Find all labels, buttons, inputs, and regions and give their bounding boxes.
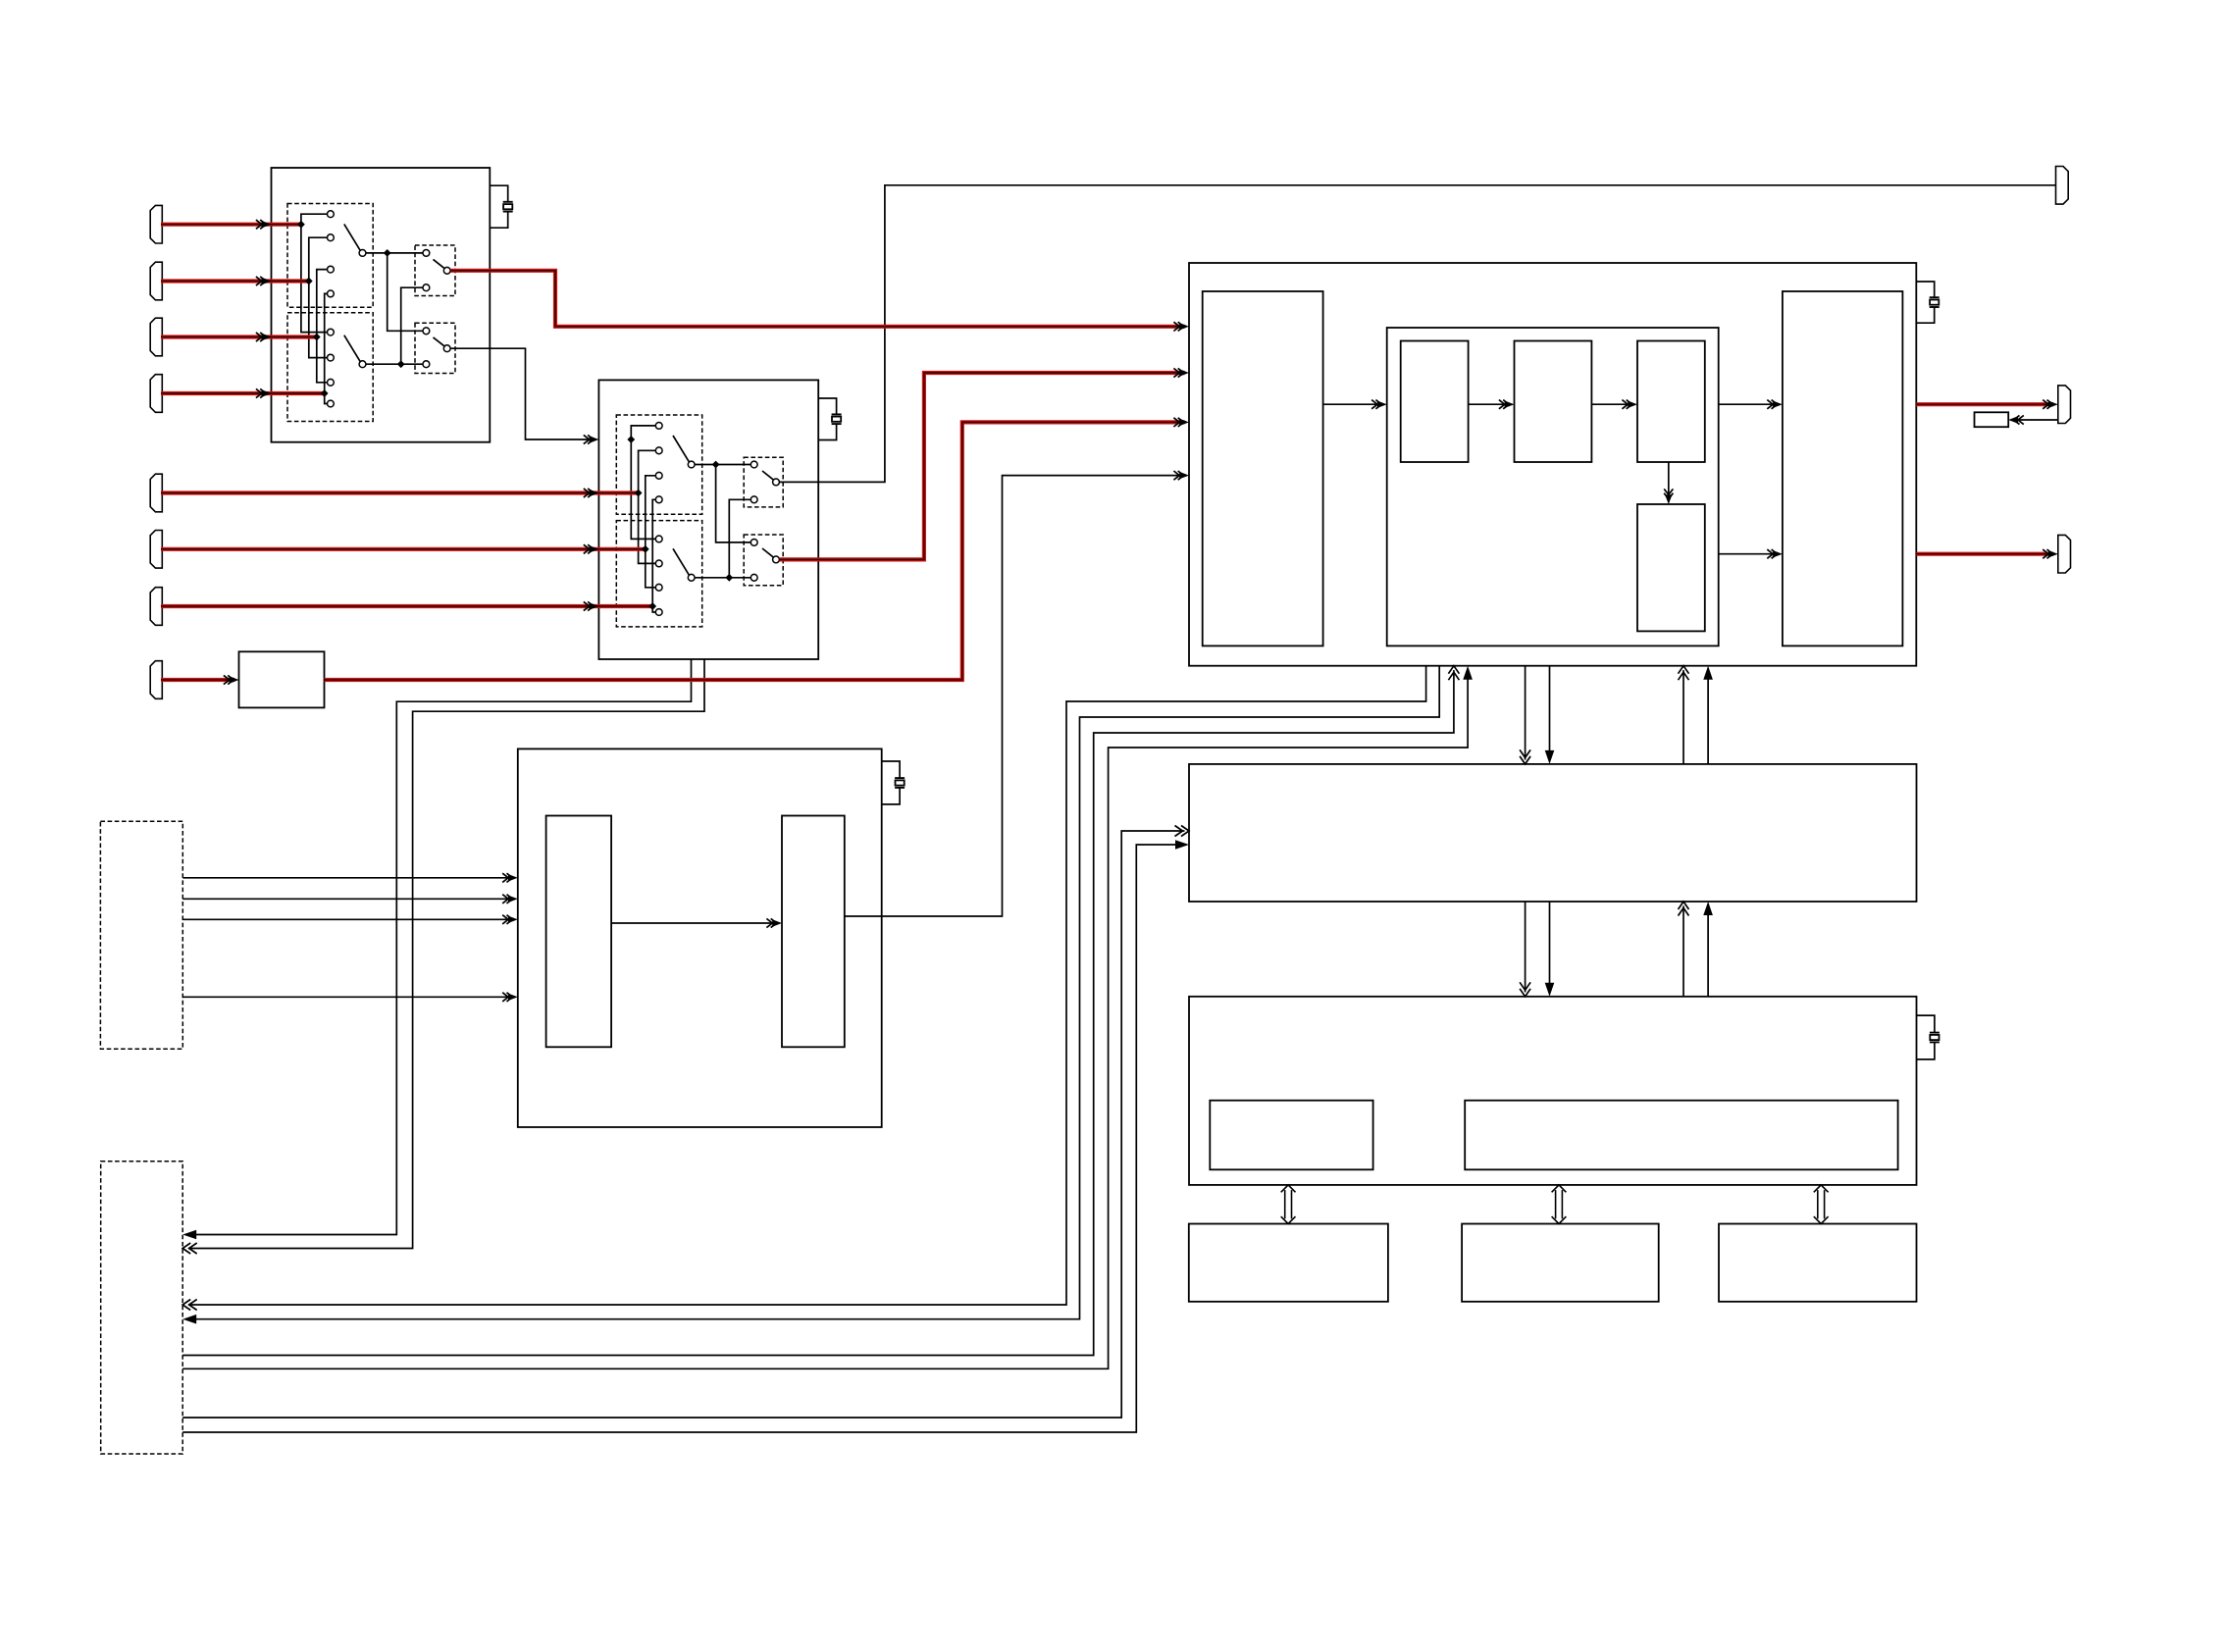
U3 stage A block: [1401, 341, 1469, 463]
U1 bank A contact 1: [328, 211, 335, 218]
connector P8: [150, 661, 162, 699]
U1 junction 1: [297, 221, 305, 229]
U2 junction A: [712, 461, 720, 469]
wire U5 to U3 up 2: [1703, 666, 1713, 764]
connector P3: [150, 318, 162, 356]
connector block CN1 (dashed): [100, 821, 182, 1049]
red wire P6 to U2: [161, 547, 646, 551]
U2 bank A contact 1: [655, 423, 662, 430]
arrow into CN2 row 2: [182, 1243, 197, 1254]
red wire P1 to U1: [161, 223, 301, 227]
U2 bus line 2: [639, 450, 656, 563]
U2 bank B contact 4: [655, 609, 662, 616]
U1 bank A contact 4: [328, 290, 335, 297]
U4 output block: [782, 816, 845, 1048]
arrow into U3 input 4: [1173, 471, 1189, 480]
U2 bank A contact 3: [655, 472, 662, 479]
arrow into U3 input 2: [1173, 368, 1189, 377]
U2 bank B contact 2: [655, 560, 662, 567]
wire U3 to U5 down 1: [1520, 666, 1530, 764]
wire CN1 to U4 line 2: [182, 895, 518, 903]
U3 input stage block: [1203, 291, 1323, 645]
U1 bus line 2: [309, 237, 328, 357]
controller U6 body: [1189, 997, 1917, 1185]
wire U5 to U6 down 2: [1545, 902, 1555, 997]
U2 junction 1: [627, 436, 635, 443]
wire CN1 to U4 line 1: [182, 873, 518, 882]
wire CN1 to U4 line 3: [182, 915, 518, 924]
switch module U1 body: [272, 168, 491, 442]
U2 junction B: [725, 574, 733, 582]
wire U2 to CN2 row 1: [187, 659, 692, 1235]
arrow into U1 input 4: [256, 388, 272, 397]
connector P4: [150, 375, 162, 413]
U3 stage C block: [1637, 341, 1705, 463]
U1 bus line 3: [317, 270, 328, 383]
U2 SW4 contacts: [750, 540, 757, 582]
red wire U1 SW1 to U3: [450, 271, 1184, 327]
wire U3 stage C to D: [1664, 462, 1673, 504]
wire U1 crossover 2: [401, 287, 423, 364]
U2 bank A contact 4: [655, 496, 662, 503]
wire CN1 to U4 line 4: [182, 993, 518, 1002]
arrow into U3 bottom 2: [1463, 666, 1473, 680]
connector P6: [150, 531, 162, 569]
connector J11: [2058, 386, 2071, 424]
arrow into U5 input 1: [1175, 826, 1190, 837]
arrow into CN2 row 4: [182, 1315, 196, 1324]
arrow into U1 input 3: [256, 333, 272, 341]
U1 bus line 4: [325, 293, 328, 403]
wire U1 SW2 to U2 input: [450, 348, 595, 439]
crystal X2 on U2: [818, 398, 841, 440]
wire U6 to U5 up 1: [1679, 902, 1689, 997]
U2 bank B switch arm: [673, 548, 695, 581]
wire U4 output to U3: [845, 476, 1185, 916]
wire U2 crossover 2: [729, 499, 750, 578]
connector P7: [150, 588, 162, 626]
wire CN2 row 6 to U3: [182, 670, 1468, 1368]
U2 junction 2: [635, 490, 643, 497]
wire U3 input stage to sub-block: [1323, 400, 1387, 409]
wire U2 crossover 1: [716, 465, 751, 542]
U6 logic block: [1465, 1101, 1897, 1170]
wire U3 stage B to C: [1591, 400, 1637, 409]
arrow into U2 input 3: [584, 544, 599, 553]
connector P2: [150, 262, 162, 300]
wire U3 sub-block to output stage: [1719, 400, 1783, 409]
red wire P2 to U1: [161, 279, 309, 283]
wire U4 input block to output block: [611, 918, 782, 927]
wire U5 to U3 up 1: [1679, 666, 1689, 764]
memory module U7 body: [1189, 1224, 1388, 1302]
U1 bank A contact 2: [328, 234, 335, 241]
red wire U2 SW4 to U3: [780, 373, 1185, 559]
U1 bank B switch arm: [344, 336, 366, 368]
arrow into CN2 row 1: [182, 1230, 196, 1240]
arrow into U2 input 2: [584, 489, 599, 497]
connector J10: [2056, 167, 2069, 205]
wire CN2 row 5 to U3: [182, 670, 1454, 1355]
U3 output stage block: [1783, 291, 1903, 645]
U3 stage B block: [1515, 341, 1592, 463]
wire J11 to termination R1: [2013, 419, 2058, 421]
U1 bank B contact 4: [328, 400, 335, 407]
U1 input bank A (dashed): [287, 204, 373, 308]
U2 SW3 contacts: [750, 461, 757, 503]
red wire P7 to U2: [161, 604, 652, 608]
U1 selector SW2 (dashed): [415, 323, 455, 373]
red wire FL1 to U3: [325, 422, 1185, 680]
filter FL1 body: [239, 651, 325, 707]
power module U4 body: [518, 749, 882, 1127]
U2 bus line 4: [652, 499, 655, 612]
connector P1: [150, 205, 162, 243]
U2 input bank B (dashed): [616, 521, 701, 627]
red wire P8 to FL1: [161, 678, 234, 682]
U2 bank B contact 1: [655, 536, 662, 542]
U1 bank A contact 3: [328, 266, 335, 273]
wire U3 to U5 down 2: [1545, 666, 1555, 764]
arrow into J12: [2043, 549, 2058, 558]
wire U5 to U6 down 1: [1520, 902, 1530, 997]
bus link U6 to U9: [1814, 1185, 1829, 1224]
arrow into U1 input 2: [256, 277, 272, 285]
wire U3 stage A to B: [1469, 400, 1515, 409]
U1 junction B: [397, 360, 405, 368]
U2 junction 4: [648, 602, 656, 610]
U2 bank A output wire: [695, 464, 750, 466]
arrow into R1: [2008, 415, 2024, 424]
arrow into FL1: [224, 675, 239, 684]
bus link U6 to U8: [1552, 1185, 1567, 1224]
U1 bank B output wire: [366, 363, 423, 365]
U2 bus line 1: [631, 426, 655, 540]
wire CN2 row 7 to U5: [182, 831, 1184, 1418]
U2 bank B contact 3: [655, 584, 662, 591]
U2 bank A switch arm: [673, 436, 695, 468]
U4 input block: [546, 816, 612, 1048]
wire U6 to U5 up 2: [1703, 902, 1713, 997]
U3 processing sub-block: [1387, 328, 1719, 645]
wire U3 sub-block to output stage 2: [1719, 549, 1783, 558]
U1 bank B contact 1: [328, 329, 335, 336]
wire U1 crossover 1: [388, 253, 423, 331]
red wire P5 to U2: [161, 490, 639, 494]
arrow into U3 input 1: [1173, 322, 1189, 331]
arrow into CN2 row 3: [182, 1300, 197, 1311]
red wire P3 to U1: [161, 335, 317, 338]
U1 bank B contact 2: [328, 354, 335, 361]
arrow into U3 input 3: [1173, 418, 1189, 427]
U2 bank A contact 2: [655, 447, 662, 454]
red wire U3 to J12: [1916, 552, 2053, 556]
U1 bank B contact 3: [328, 379, 335, 386]
U2 bank B output wire: [695, 577, 750, 579]
U1 SW2 switch arm: [434, 337, 451, 352]
wire U3 to CN2 row 4: [187, 666, 1440, 1319]
wire CN2 row 8 to U5: [182, 845, 1184, 1432]
U2 SW4 switch arm: [762, 548, 779, 563]
arrow into U3 bottom 1: [1448, 666, 1459, 681]
wire U3 to CN2 row 3: [188, 666, 1426, 1305]
U1 junction 2: [305, 278, 313, 285]
U1 junction 4: [321, 389, 329, 397]
wire U2 SW3 to J10: [780, 185, 2056, 483]
wire U2 to CN2 row 2: [188, 659, 704, 1249]
arrow into U2 input: [584, 435, 599, 443]
U1 bank A switch arm: [344, 224, 366, 256]
arrow into U5 input 2: [1175, 840, 1189, 850]
U1 bus line 1: [301, 214, 328, 332]
U2 selector SW3 (dashed): [744, 457, 783, 507]
U1 SW2 contacts: [423, 328, 430, 368]
switch module U2 body: [598, 380, 818, 659]
memory module U9 body: [1719, 1224, 1917, 1302]
crystal X4 on U4: [882, 761, 905, 804]
U1 SW1 switch arm: [434, 259, 451, 274]
arrow into U1 input 1: [256, 220, 272, 229]
U1 input bank B (dashed): [287, 313, 373, 422]
red wire U3 to J11: [1916, 402, 2053, 406]
U1 selector SW1 (dashed): [415, 245, 455, 296]
crystal X1 on U1: [490, 185, 512, 228]
U1 bank A output wire: [366, 252, 423, 254]
memory module U8 body: [1462, 1224, 1659, 1302]
U1 junction 3: [313, 334, 321, 341]
bus link U6 to U7: [1281, 1185, 1296, 1224]
crystal X5 on U6: [1917, 1015, 1940, 1059]
connector P5: [150, 474, 162, 512]
main controller U3 body: [1189, 263, 1916, 666]
U3 stage D block: [1637, 504, 1705, 631]
U2 junction 3: [642, 545, 649, 553]
crystal X3 on U3: [1916, 282, 1939, 323]
arrow into U2 input 4: [584, 601, 599, 610]
interface module U5 body: [1189, 764, 1917, 902]
arrow into J11: [2043, 400, 2058, 409]
U2 SW3 switch arm: [762, 471, 779, 486]
U6 memory block: [1210, 1101, 1372, 1170]
U2 bus line 3: [646, 476, 656, 588]
U1 SW1 contacts: [423, 250, 430, 291]
red wire P4 to U1: [161, 391, 325, 395]
U2 input bank A (dashed): [616, 415, 701, 514]
U2 selector SW4 (dashed): [744, 535, 783, 586]
U1 junction A: [384, 249, 391, 257]
connector J12: [2058, 535, 2071, 573]
connector block CN2 (dashed): [101, 1162, 183, 1454]
termination R1 body: [1975, 412, 2009, 427]
